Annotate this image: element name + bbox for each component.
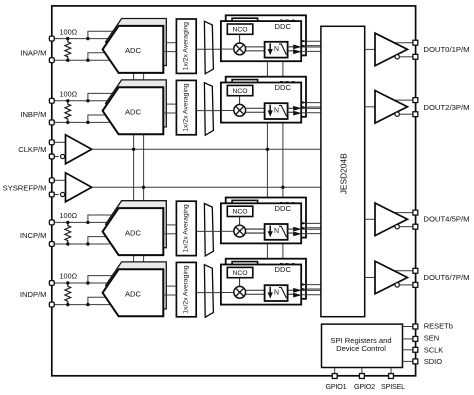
svg-text:INAP/M: INAP/M xyxy=(20,49,46,58)
wire averaging to DDC B xyxy=(196,110,221,112)
DDC D xyxy=(221,259,326,305)
svg-text:INDP/M: INDP/M xyxy=(20,290,47,299)
wire: DDC sysref rail vertical xyxy=(282,61,284,260)
ADC D xyxy=(103,262,177,316)
wire: ADC clock rail vertical xyxy=(133,73,135,270)
wire averaging to DDC D xyxy=(196,292,221,294)
svg-text:Device Control: Device Control xyxy=(336,344,386,353)
wire: DDC clock rail vertical xyxy=(266,61,268,260)
mux trapezoid B xyxy=(204,83,213,136)
wire: ADC sysref rail vertical xyxy=(143,73,145,270)
svg-text:SYSREFP/M: SYSREFP/M xyxy=(3,183,47,192)
output buffer DOUT4/5 xyxy=(365,203,418,236)
svg-text:SPISEL: SPISEL xyxy=(381,382,405,391)
input network INDP xyxy=(49,272,113,307)
pin SEN xyxy=(403,333,440,342)
ADC A xyxy=(103,19,177,73)
wire clock line xyxy=(92,148,321,150)
wire averaging to DDC A xyxy=(196,48,221,50)
mux trapezoid D xyxy=(204,265,213,318)
chip outline border xyxy=(52,6,416,376)
DDC B xyxy=(221,77,326,123)
pin GPIO1 xyxy=(326,368,347,391)
clock buffer U-CLK xyxy=(49,135,91,164)
svg-text:JESD204B: JESD204B xyxy=(339,153,349,194)
SPI registers block xyxy=(322,324,403,367)
DDC A xyxy=(221,15,326,61)
mux trapezoid C xyxy=(204,204,213,257)
svg-text:RESETb: RESETb xyxy=(424,322,453,331)
averaging block B xyxy=(176,80,196,134)
pin SCLK xyxy=(403,346,444,355)
sysref buffer U-SYSREF xyxy=(49,173,91,202)
output buffer DOUT0/1 xyxy=(365,33,418,66)
pin SPISEL xyxy=(381,368,405,391)
junction sysref/DDC rail xyxy=(281,186,284,189)
mux trapezoid A xyxy=(204,21,213,74)
pin GPIO2 xyxy=(354,368,375,391)
averaging block C xyxy=(176,201,196,255)
svg-text:SDIO: SDIO xyxy=(424,357,443,366)
DDC C xyxy=(221,198,326,244)
averaging block A xyxy=(176,19,196,73)
output buffer DOUT2/3 xyxy=(365,91,418,124)
input network INAP xyxy=(49,27,113,62)
averaging block D xyxy=(176,262,196,316)
pin RESETb xyxy=(403,322,453,331)
svg-text:SCLK: SCLK xyxy=(424,346,444,355)
input network INCP xyxy=(49,211,113,246)
junction clock/DDC rail xyxy=(266,148,269,151)
ADC B xyxy=(103,80,177,134)
wire averaging to DDC C xyxy=(196,230,221,232)
svg-text:INBP/M: INBP/M xyxy=(20,110,46,119)
input network INBP xyxy=(49,90,113,125)
svg-text:CLKP/M: CLKP/M xyxy=(18,145,46,154)
junction clock/ADC rail xyxy=(132,148,135,151)
svg-text:DOUT0/1P/M: DOUT0/1P/M xyxy=(423,45,469,54)
svg-text:DOUT4/5P/M: DOUT4/5P/M xyxy=(423,215,469,224)
svg-text:DOUT6/7P/M: DOUT6/7P/M xyxy=(423,273,469,282)
svg-text:INCP/M: INCP/M xyxy=(20,231,47,240)
junction sysref/ADC rail xyxy=(142,186,145,189)
svg-text:GPIO1: GPIO1 xyxy=(326,382,347,391)
svg-text:GPIO2: GPIO2 xyxy=(354,382,375,391)
ADC C xyxy=(103,201,177,255)
svg-text:DOUT2/3P/M: DOUT2/3P/M xyxy=(423,103,469,112)
pin SDIO xyxy=(403,357,443,366)
output buffer DOUT6/7 xyxy=(365,261,418,294)
wire sysref line xyxy=(92,186,321,188)
JESD204B interface block xyxy=(321,26,365,316)
svg-text:SEN: SEN xyxy=(424,333,439,342)
